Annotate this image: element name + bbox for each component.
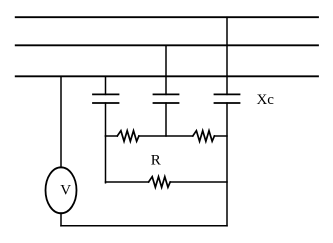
capacitor C3 — [215, 94, 240, 103]
bus line 3 (bottom phase) — [16, 75, 318, 77]
wire: capacitor C2 bottom lead to resistor row 1 — [165, 103, 167, 136]
wire: bottom return wire — [61, 225, 227, 227]
wire: resistor row 1 middle lead — [139, 135, 193, 137]
svg-text:R: R — [151, 152, 161, 168]
capacitor C1 — [93, 94, 119, 103]
wire: resistor row 1 left lead — [106, 135, 118, 137]
wire: capacitor C2 top lead from bus 2 — [165, 45, 167, 94]
wire: capacitor C3 bottom lead down to bottom return wire — [226, 103, 228, 226]
resistor R1 (row 1 left zigzag) — [117, 131, 139, 142]
wire: resistor row 1 right lead — [214, 135, 227, 137]
svg-text:Xc: Xc — [256, 92, 274, 108]
bus line 1 (top phase) — [16, 16, 318, 18]
voltmeter V (ellipse) — [46, 167, 77, 213]
wire: resistor row 2 right lead — [170, 181, 227, 183]
wire: voltmeter branch drop from bus 3 — [60, 76, 62, 167]
wire: left vertical from row 1 to row 2 — [105, 136, 107, 183]
wire: capacitor C1 bottom lead to resistor row 1 — [105, 103, 107, 136]
bus line 2 (middle phase) — [16, 44, 318, 46]
resistor R3 (row 2 zigzag) — [149, 177, 171, 188]
resistor R2 (row 1 right zigzag) — [193, 131, 215, 142]
svg-text:V: V — [60, 183, 71, 199]
wire: voltmeter bottom lead — [60, 213, 62, 226]
wire: capacitor C3 top lead from bus 1 — [226, 17, 228, 94]
capacitor C2 — [154, 94, 179, 103]
wire: capacitor C1 top lead from bus 3 — [105, 76, 107, 94]
wire: resistor row 2 left lead — [106, 181, 149, 183]
